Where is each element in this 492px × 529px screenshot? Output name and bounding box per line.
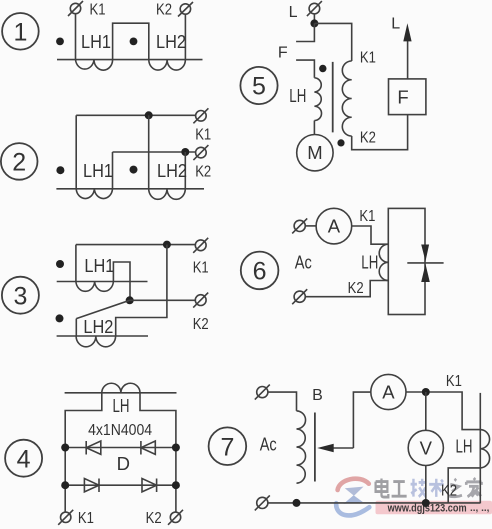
svg-text:6: 6 [253, 258, 267, 286]
wire slider to ammeter (circuit 7) [353, 392, 370, 448]
svg-text:.., ..,: .., .., [470, 503, 490, 514]
wire arrow to L (circuit 5) [407, 40, 409, 79]
polarity dot LH2 (circuit 2) [130, 166, 138, 174]
svg-text:LH1: LH1 [84, 255, 114, 276]
svg-text:4: 4 [17, 445, 31, 473]
wire secondary to fuse box (circuit 5) [352, 115, 408, 150]
svg-text:L: L [289, 4, 298, 21]
polarity dot K2 side (circuit 5) [337, 139, 344, 146]
polarity dot LH2 (circuit 3) [56, 314, 64, 322]
wire to autotransformer (circuit 7) [268, 392, 297, 411]
svg-text:2: 2 [12, 149, 26, 177]
wire right bracket (circuit 4) [140, 393, 176, 512]
wire diode row 1 (circuit 4) [65, 447, 176, 449]
svg-text:F: F [278, 45, 288, 62]
svg-text:M: M [307, 142, 322, 163]
arrowhead (circuit 5) [403, 23, 411, 41]
junction dot row1 left (circuit 4) [61, 444, 69, 452]
terminal K2 (circuit 1) [180, 4, 190, 14]
polarity dot LH1 (circuit 1) [56, 38, 64, 46]
wire winding to motor (circuit 5) [313, 121, 315, 135]
junction dot K1 (circuit 7) [422, 388, 430, 396]
terminal K1 (circuit 1) [70, 3, 80, 13]
polarity dot LH1 (circuit 2) [56, 166, 64, 174]
svg-text:A: A [328, 216, 341, 237]
wire LH1 right lead (circuit 2) [112, 152, 114, 189]
CT winding LH2 (circuit 2) [149, 189, 186, 200]
diode D4 (circuit 4) [142, 479, 157, 492]
terminal lower left (circuit 7) [257, 497, 268, 508]
terminal K1 (circuit 4) [60, 512, 70, 522]
junction dot row2 left (circuit 4) [61, 481, 69, 489]
wire LH2 right lead (circuit 2) [184, 152, 186, 189]
terminal K1 (circuit 2) [196, 111, 207, 122]
gate line (circuit 6) [407, 262, 443, 264]
svg-text:LH: LH [289, 85, 306, 106]
fuse box F (circuit 5) [389, 79, 426, 115]
svg-text:K1: K1 [90, 1, 106, 18]
svg-text:F: F [397, 87, 408, 108]
junction dot (circuit 2) [145, 111, 153, 119]
svg-text:LH: LH [113, 395, 130, 416]
svg-text:K2: K2 [441, 483, 457, 500]
wire LH2 left lead (circuit 3) [75, 319, 77, 336]
watermark text dian-gong-ji-shu-zhi-jia [376, 479, 407, 497]
svg-text:B: B [312, 387, 323, 404]
svg-text:3: 3 [13, 282, 27, 310]
svg-text:Ac: Ac [295, 252, 312, 273]
voltmeter V (circuit 7) [408, 430, 443, 465]
CT winding LH2 (circuit 1) [149, 60, 186, 71]
svg-text:K2: K2 [348, 280, 364, 297]
svg-text:K1: K1 [195, 126, 211, 143]
polarity dot LH (circuit 5) [319, 65, 326, 72]
junction dot row2 right (circuit 4) [172, 481, 180, 489]
svg-text:A: A [382, 382, 395, 403]
figure number 7 [209, 427, 247, 465]
wire LH1 right lead crossover (circuit 3) [113, 262, 130, 300]
transformer winding K1-K2 right (circuit 5) [342, 61, 351, 136]
bidirectional diode lower triangle (circuit 6) [421, 264, 430, 282]
terminal K1 (circuit 3) [195, 240, 206, 251]
wire CT lower lead (circuit 7) [448, 468, 480, 503]
wire to voltmeter (circuit 7) [425, 392, 427, 430]
svg-text:LH: LH [361, 252, 378, 273]
transformer winding LH left (circuit 5) [314, 78, 321, 121]
bidirectional diode upper triangle (circuit 6) [421, 245, 429, 262]
svg-text:5: 5 [252, 73, 266, 101]
wire terminal to ammeter (circuit 6) [305, 225, 316, 227]
primary conductor (circuit 1) [57, 59, 203, 61]
svg-text:1: 1 [13, 18, 27, 46]
CT winding LH1 (circuit 3) [76, 282, 114, 292]
figure number 1 [2, 13, 39, 50]
wire reversing diagonal (circuit 3) [76, 300, 129, 318]
wire K2 lead (circuit 1) [184, 14, 186, 59]
terminal L (circuit 5) [309, 3, 320, 14]
wire left bracket (circuit 4) [65, 393, 102, 512]
wire lower terminal to winding (circuit 6) [305, 281, 388, 297]
primary loop rectangle (circuit 6) [388, 208, 425, 314]
slider arrow (circuit 7) [331, 447, 353, 449]
ammeter A (circuit 7) [371, 374, 406, 409]
wire top bus (circuit 3) [76, 244, 195, 246]
CT winding LH (circuit 6) [379, 244, 388, 280]
svg-text:LH1: LH1 [81, 31, 111, 52]
wire ammeter to winding (circuit 6) [352, 226, 389, 244]
primary conductor (circuit 4) [65, 392, 177, 394]
primary conductor upper (circuit 3) [57, 281, 148, 283]
svg-text:K1: K1 [78, 510, 94, 527]
junction dot row1 right (circuit 4) [172, 444, 180, 452]
polarity dot LH2 (circuit 1) [130, 38, 138, 46]
figure number 4 [5, 440, 42, 477]
switch F lower contact (circuit 5) [296, 60, 314, 78]
switch F upper contact (circuit 5) [296, 23, 314, 41]
wire LH2 left lead (circuit 2) [148, 115, 150, 189]
transformer core (circuit 5) [332, 62, 334, 132]
junction dot V bottom (circuit 7) [422, 499, 430, 507]
wire bottom bus (circuit 7) [268, 502, 480, 504]
svg-text:LH: LH [456, 436, 473, 457]
figure number 2 [1, 143, 38, 180]
svg-text:K2: K2 [360, 130, 376, 147]
svg-text:Ac: Ac [260, 433, 277, 454]
diode D3 (circuit 4) [84, 479, 99, 492]
svg-text:V: V [420, 437, 433, 458]
svg-text:K2: K2 [195, 164, 211, 181]
watermark ribbon [376, 501, 492, 514]
junction dot top (circuit 3) [163, 241, 171, 249]
CT winding LH (circuit 4) [102, 383, 140, 393]
svg-text:D: D [117, 453, 130, 474]
svg-text:LH1: LH1 [83, 160, 113, 181]
diode D2 (circuit 4) [140, 441, 142, 455]
wire right vertical from K1 node (circuit 3) [116, 245, 167, 336]
motor M (circuit 5) [297, 135, 333, 171]
junction dot B bottom (circuit 7) [293, 499, 301, 507]
svg-text:K1: K1 [446, 373, 462, 390]
CT winding LH1 (circuit 2) [76, 189, 112, 199]
svg-text:L: L [391, 15, 400, 32]
svg-text:K2: K2 [156, 2, 172, 19]
CT winding LH1 (circuit 1) [76, 60, 113, 71]
wire from terminal (circuit 5) [313, 14, 315, 24]
wire voltmeter down (circuit 7) [425, 466, 427, 504]
wire second bus (circuit 2) [113, 151, 196, 153]
figure number 3 [2, 277, 39, 314]
junction dot (circuit 5) [310, 19, 318, 27]
terminal upper left (circuit 7) [257, 387, 268, 398]
primary conductor lower (circuit 3) [57, 335, 148, 337]
svg-text:LH2: LH2 [156, 31, 186, 52]
diode D1 (circuit 4) [85, 441, 87, 455]
figure number 6 [241, 252, 279, 290]
svg-text:K1: K1 [359, 208, 375, 225]
svg-text:LH2: LH2 [83, 316, 113, 337]
terminal K2 (circuit 4) [170, 512, 180, 522]
CT winding LH (circuit 7) [480, 430, 489, 468]
watermark logo swirl [336, 479, 369, 516]
svg-text:K2: K2 [193, 316, 209, 333]
wire series link LH1-LH2 (circuit 1) [113, 23, 149, 59]
svg-text:4x1N4004: 4x1N4004 [88, 422, 152, 439]
wire LH1 left lead (circuit 3) [75, 245, 77, 282]
wire top parallel bus (circuit 2) [76, 114, 195, 116]
terminal lower (circuit 6) [294, 291, 305, 302]
terminal K2 (circuit 3) [195, 295, 206, 306]
junction dot K2 (circuit 2) [181, 148, 189, 156]
svg-text:7: 7 [220, 433, 234, 461]
ammeter A (circuit 6) [316, 208, 352, 244]
wire K1 lead (circuit 1) [75, 14, 77, 60]
svg-text:K1: K1 [193, 260, 209, 277]
svg-text:K1: K1 [360, 50, 376, 67]
wire to primary winding (circuit 5) [314, 23, 351, 61]
svg-text:K2: K2 [146, 510, 162, 527]
CT winding LH2 (circuit 3) [76, 336, 116, 347]
terminal upper (circuit 6) [294, 220, 305, 231]
wire ammeter to CT (circuit 7) [406, 392, 480, 430]
autotransformer core bar (circuit 7) [314, 413, 316, 482]
junction dot middle (circuit 3) [126, 296, 134, 304]
CT primary bar (circuit 7) [479, 393, 481, 503]
autotransformer winding B (circuit 7) [297, 411, 306, 483]
wire LH1 left lead (circuit 2) [75, 115, 77, 189]
wire to K2 (circuit 3) [130, 299, 196, 301]
terminal K2 (circuit 2) [196, 147, 207, 158]
primary conductor (circuit 2) [56, 188, 204, 190]
svg-text:LH2: LH2 [157, 160, 187, 181]
polarity dot LH1 (circuit 3) [56, 260, 64, 268]
wire diode row 2 (circuit 4) [65, 484, 176, 486]
figure number 5 [240, 67, 277, 104]
